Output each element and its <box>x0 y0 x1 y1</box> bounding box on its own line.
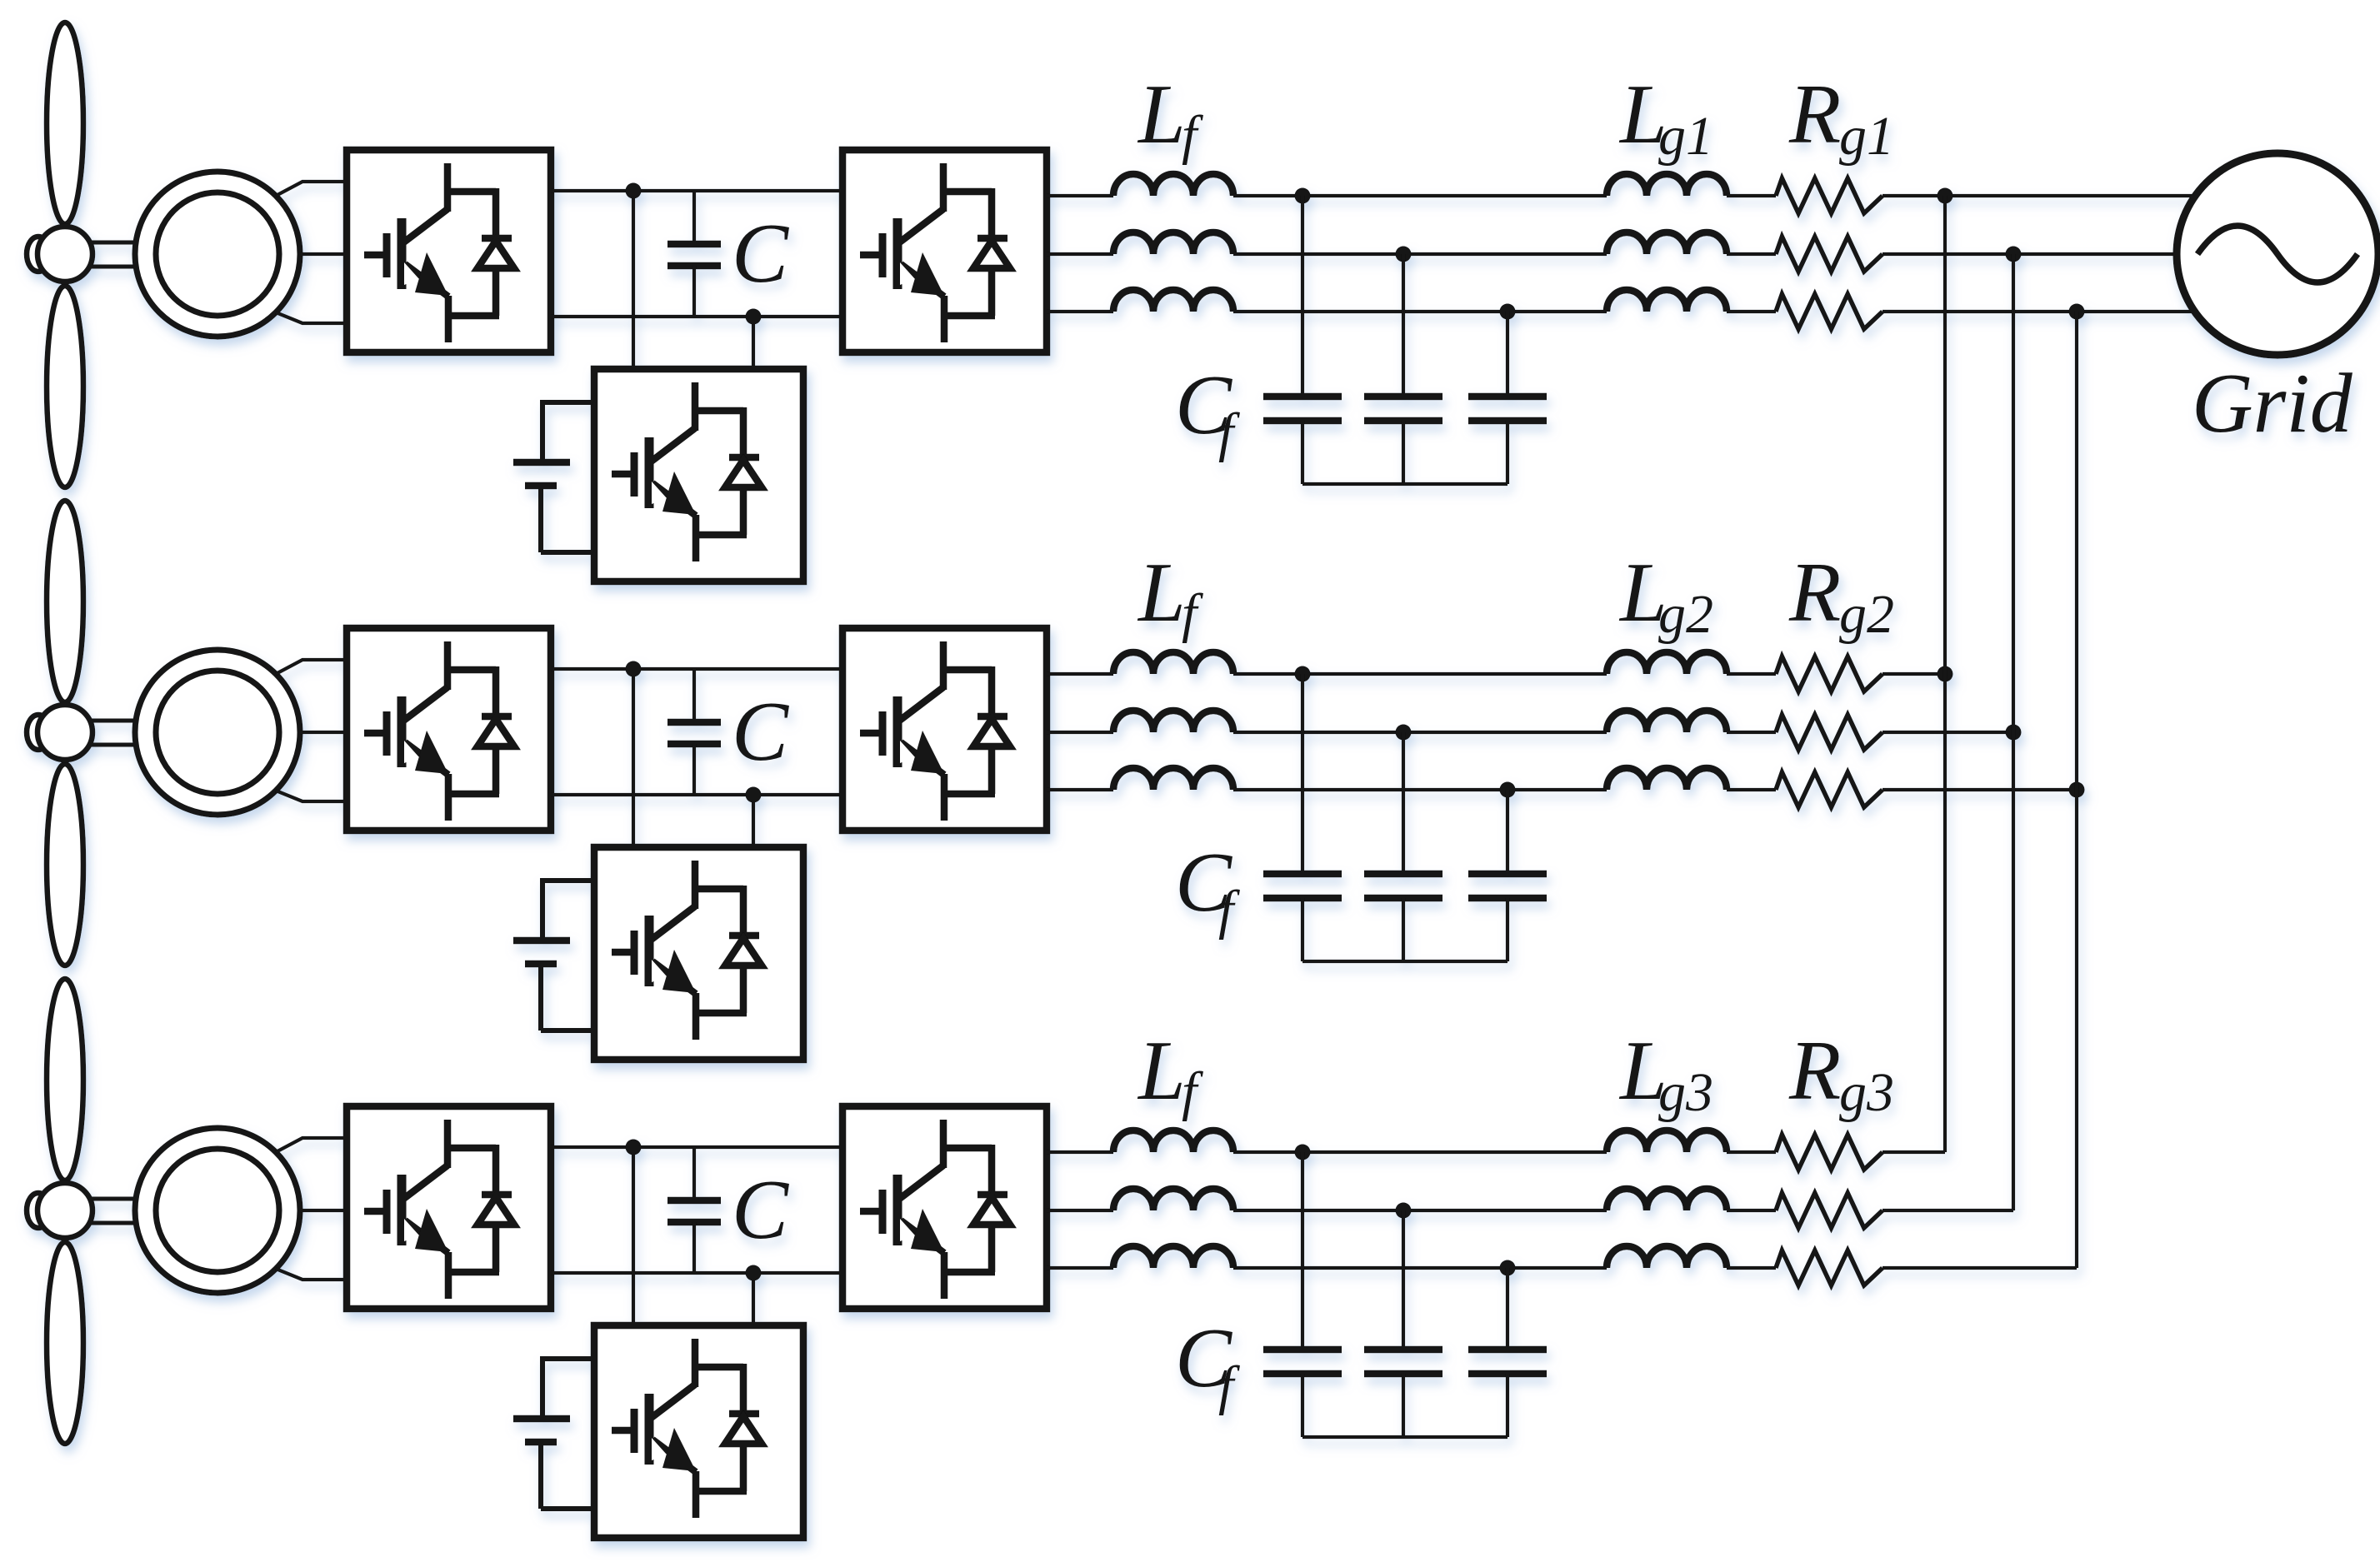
IGBT gate bar <box>631 452 638 497</box>
IGBT gate bar <box>383 1190 391 1234</box>
chopper converter U2c (braking) <box>594 847 803 1060</box>
wire: diode anode to emitter <box>492 746 500 794</box>
inductor Lf row 2 phase b <box>1113 711 1233 732</box>
diode body <box>973 241 1010 268</box>
diode body <box>477 719 514 746</box>
wire: Cf star point bus row 3 <box>1302 1435 1507 1439</box>
IGBT collector lead <box>692 382 699 431</box>
label Lf row 1 <box>1137 67 1203 166</box>
wire: G1 phase a to converter <box>276 182 347 196</box>
capacitor Cf row 2 phase b <box>1364 874 1442 961</box>
wire: G1 phase b to converter <box>300 252 347 256</box>
node: bus C row 2 <box>2069 782 2085 798</box>
wire: Lf to Lg1 phase a <box>1233 194 1607 197</box>
diode cathode bar <box>977 713 1007 721</box>
wire: collector to diode cathode <box>444 188 496 196</box>
capacitor Cf row 1 phase c <box>1468 397 1547 484</box>
IGBT emitter diagonal with arrow <box>901 742 944 775</box>
label C row 1 <box>732 207 789 301</box>
wire: U2b phase b output <box>1047 731 1113 734</box>
wind turbine W1 lower blade <box>47 286 83 487</box>
node: bus A row 1 <box>1937 188 1953 204</box>
inductor Lg2 phase b <box>1607 711 1727 732</box>
shaft W2 to generator <box>90 721 142 745</box>
converter U1b (grid-side inverter) <box>842 150 1047 352</box>
wire: phase a to Cf row 2 <box>1301 674 1304 874</box>
IGBT collector diagonal <box>898 687 943 721</box>
wind turbine W3 upper blade <box>47 979 83 1180</box>
wind turbine W2 upper blade <box>47 501 83 702</box>
diode body <box>477 241 514 268</box>
node: Cf tap phase c row 2 <box>1500 782 1516 798</box>
node: bus B row 1 <box>2006 247 2022 262</box>
node: Cf tap phase c row 1 <box>1500 304 1516 320</box>
wire: collector bus B (phase b) <box>2012 254 2015 1210</box>
inductor Lf row 3 phase a <box>1113 1130 1233 1152</box>
wire: collector bus C (phase c) <box>2075 312 2078 1268</box>
wire: Rg3 phase a to bus A <box>1882 1150 1945 1154</box>
wire: diode anode to emitter <box>740 487 747 535</box>
wire: DC+ rail row 1 <box>551 189 842 192</box>
IGBT emitter lead <box>445 296 452 342</box>
IGBT emitter lead <box>445 774 452 821</box>
label Lf row 2 <box>1137 546 1203 644</box>
capacitor C row 1 <box>667 191 721 317</box>
wire: Lg1 to Rg1 phase c <box>1727 310 1776 313</box>
node: Cf tap phase b row 1 <box>1396 247 1412 262</box>
wire: diode anode to emitter <box>988 268 996 316</box>
node: bus B row 2 <box>2006 725 2022 741</box>
IGBT emitter lead <box>692 1471 700 1518</box>
converter U2b outline <box>842 628 1047 831</box>
IGBT emitter diagonal with arrow <box>652 961 696 994</box>
resistor Rg3 phase c <box>1776 1250 1882 1285</box>
IGBT gate lead <box>860 730 882 737</box>
wire: Lg2 to Rg2 phase b <box>1727 731 1776 734</box>
IGBT gate bar <box>383 233 391 277</box>
battery B3 negative plate <box>525 1439 557 1446</box>
wire: G3 phase a to converter <box>276 1138 347 1152</box>
wire: Lg2 to Rg2 phase a <box>1727 672 1776 676</box>
wire: Lf to Lg2 phase a <box>1233 672 1607 676</box>
label Lg1 <box>1618 67 1713 167</box>
wind turbine W2 nose cone <box>27 715 50 750</box>
wind turbine W1 upper blade <box>47 22 83 224</box>
IGBT collector lead <box>692 1339 699 1387</box>
diode cathode bar <box>729 454 759 462</box>
IGBT collector lead <box>692 861 699 909</box>
wire: battery bracket bottom row 1 <box>541 486 594 552</box>
chopper U3c outline <box>594 1325 803 1538</box>
generator G3 <box>135 1128 300 1293</box>
wire: phase a to Cf row 3 <box>1301 1152 1304 1350</box>
wind turbine W3 nose cone <box>27 1193 50 1228</box>
IGBT emitter diagonal with arrow <box>405 1220 448 1253</box>
diode cathode bar <box>729 1410 759 1418</box>
wire: DC- rail row 3 <box>551 1271 842 1275</box>
battery B3 positive plate <box>513 1415 570 1423</box>
converter U3b outline <box>842 1106 1047 1309</box>
node: Cf tap phase b row 3 <box>1396 1203 1412 1219</box>
IGBT gate bar <box>879 711 887 756</box>
wire: phase c to Cf row 3 <box>1506 1268 1509 1350</box>
IGBT emitter diagonal with arrow <box>901 1220 944 1253</box>
wire: U3b phase c output <box>1047 1266 1113 1270</box>
wire: G3 phase b to converter <box>300 1209 347 1212</box>
wire: chopper tap + row 1 <box>632 191 635 369</box>
wire: battery bracket top row 1 <box>542 400 594 462</box>
wire: Lf to Lg3 phase c <box>1233 1266 1607 1270</box>
converter U2a (machine-side rectifier) <box>347 628 551 831</box>
resistor Rg3 phase b <box>1776 1193 1882 1228</box>
node: DC+ / chopper junction row 2 <box>626 661 642 677</box>
wire: phase b to Cf row 2 <box>1402 732 1405 874</box>
resistor Rg2 phase a <box>1776 656 1882 691</box>
wire: diode anode to emitter <box>988 746 996 794</box>
IGBT gate lead <box>364 252 387 259</box>
wire: G3 phase c to converter <box>276 1269 347 1280</box>
svg-text:g1: g1 <box>1839 106 1894 167</box>
IGBT gate bar <box>631 1409 638 1453</box>
label Lg2 <box>1618 546 1713 645</box>
resistor Rg1 phase b <box>1776 237 1882 272</box>
svg-text:R: R <box>1788 546 1841 640</box>
IGBT channel bar <box>893 1175 902 1245</box>
label Cf row 1 <box>1175 358 1240 463</box>
wire: diode anode to emitter <box>740 966 747 1013</box>
wire: DC- rail row 2 <box>551 793 842 796</box>
wire: U2b phase a output <box>1047 672 1113 676</box>
wind turbine W3 hub <box>37 1183 92 1238</box>
inductor Lg1 phase b <box>1607 232 1727 254</box>
IGBT channel bar <box>397 218 407 289</box>
IGBT collector diagonal <box>650 906 695 941</box>
IGBT gate bar <box>879 233 887 277</box>
IGBT emitter diagonal with arrow <box>652 1440 696 1472</box>
diode cathode bar <box>482 713 512 721</box>
inductor Lf row 3 phase c <box>1113 1246 1233 1268</box>
converter U3a outline <box>347 1106 551 1309</box>
IGBT channel bar <box>645 437 654 508</box>
wire: U1b phase b output <box>1047 252 1113 256</box>
IGBT collector lead <box>940 1120 947 1168</box>
IGBT channel bar <box>645 916 654 986</box>
IGBT collector diagonal <box>898 1165 943 1200</box>
IGBT emitter lead <box>692 515 700 561</box>
wire: collector to diode cathode <box>940 188 992 196</box>
wire: diode anode to emitter <box>492 1225 500 1272</box>
IGBT gate lead <box>860 252 882 259</box>
IGBT collector lead <box>444 163 452 212</box>
label Rg1 <box>1788 67 1894 167</box>
svg-text:C: C <box>732 207 789 301</box>
chopper converter U3c (braking) <box>594 1325 803 1538</box>
svg-text:L: L <box>1137 1024 1186 1118</box>
node: Cf tap phase a row 2 <box>1295 666 1311 682</box>
label Rg2 <box>1788 546 1894 645</box>
IGBT collector diagonal <box>402 209 447 243</box>
wind turbine W1 nose cone <box>27 237 50 272</box>
inductor Lg3 phase b <box>1607 1189 1727 1210</box>
svg-text:g2: g2 <box>1839 584 1894 645</box>
wire: Lf to Lg3 phase a <box>1233 1150 1607 1154</box>
IGBT gate bar <box>383 711 391 756</box>
wire: Rg3 phase c to bus C <box>1882 1266 2077 1270</box>
shaft W3 to generator <box>90 1199 142 1223</box>
label Cf row 2 <box>1175 836 1240 941</box>
shaft W1 to generator <box>90 242 142 267</box>
generator G1 <box>135 172 300 337</box>
converter U3b (grid-side inverter) <box>842 1106 1047 1309</box>
diode cathode bar <box>729 932 759 940</box>
inductor Lf row 1 phase c <box>1113 290 1233 312</box>
wire: G2 phase a to converter <box>276 660 347 674</box>
converter U1a (machine-side rectifier) <box>347 150 551 352</box>
IGBT collector diagonal <box>402 687 447 721</box>
inductor Lf row 2 phase a <box>1113 652 1233 674</box>
diode body <box>973 1197 1010 1225</box>
node: bus A row 2 <box>1937 666 1953 682</box>
IGBT emitter diagonal with arrow <box>405 742 448 775</box>
svg-text:R: R <box>1788 67 1841 162</box>
resistor Rg2 phase b <box>1776 715 1882 750</box>
wind turbine W3 lower blade <box>47 1242 83 1444</box>
wire: Cf star point bus row 2 <box>1302 960 1507 963</box>
wire: chopper tap - row 3 <box>752 1273 755 1325</box>
node: DC+ / chopper junction row 3 <box>626 1140 642 1155</box>
inductor Lg1 phase a <box>1607 174 1727 196</box>
inductor Lg2 phase c <box>1607 768 1727 790</box>
wire: Lf to Lg2 phase b <box>1233 731 1607 734</box>
IGBT gate lead <box>860 1208 882 1215</box>
node: Cf tap phase b row 2 <box>1396 725 1412 741</box>
chopper U2c outline <box>594 847 803 1060</box>
IGBT gate lead <box>364 1208 387 1215</box>
wire: Lf to Lg2 phase c <box>1233 788 1607 791</box>
node: Cf tap phase a row 3 <box>1295 1145 1311 1160</box>
svg-text:L: L <box>1137 67 1186 162</box>
svg-text:Grid: Grid <box>2192 357 2353 451</box>
converter U2a outline <box>347 628 551 831</box>
battery B2 positive plate <box>513 937 570 945</box>
IGBT channel bar <box>893 696 902 767</box>
grid source symbol <box>2177 153 2378 355</box>
wire: U1b phase c output <box>1047 310 1113 313</box>
diode cathode bar <box>482 235 512 242</box>
inductor Lg2 phase a <box>1607 652 1727 674</box>
wire: collector to diode cathode <box>692 1364 743 1371</box>
wire: battery bracket bottom row 2 <box>541 964 594 1031</box>
wire: phase a to Cf row 1 <box>1301 196 1304 397</box>
IGBT emitter diagonal with arrow <box>901 264 944 297</box>
wind turbine W2 lower blade <box>47 764 83 966</box>
node: DC- / chopper junction row 1 <box>746 309 762 325</box>
wire: DC- rail row 1 <box>551 315 842 318</box>
wire: Rg1 phase a to grid <box>1882 194 2195 197</box>
resistor Rg1 phase a <box>1776 178 1882 213</box>
diode cathode bar <box>482 1191 512 1199</box>
wire: Cf star point bus row 1 <box>1302 482 1507 486</box>
wind turbine W1 hub <box>37 227 92 282</box>
svg-text:g1: g1 <box>1658 106 1713 167</box>
node: bus C row 1 <box>2069 304 2085 320</box>
svg-text:g3: g3 <box>1658 1062 1713 1123</box>
wire: Rg2 phase c to bus C <box>1882 788 2077 791</box>
battery B2 negative plate <box>525 961 557 968</box>
label Lg3 <box>1618 1024 1713 1123</box>
IGBT channel bar <box>397 696 407 767</box>
svg-text:g3: g3 <box>1839 1062 1894 1123</box>
capacitor Cf row 2 phase c <box>1468 874 1547 961</box>
converter U3a (machine-side rectifier) <box>347 1106 551 1309</box>
capacitor Cf row 1 phase b <box>1364 397 1442 484</box>
wire: Lf to Lg1 phase b <box>1233 252 1607 256</box>
IGBT collector diagonal <box>898 209 943 243</box>
converter U2b (grid-side inverter) <box>842 628 1047 831</box>
wire: battery bracket top row 3 <box>542 1356 594 1419</box>
inductor Lg3 phase a <box>1607 1130 1727 1152</box>
wire: U1b phase a output <box>1047 194 1113 197</box>
wire: phase b to Cf row 1 <box>1402 254 1405 397</box>
wire: Lg3 to Rg3 phase a <box>1727 1150 1776 1154</box>
svg-text:C: C <box>732 685 789 779</box>
inductor Lf row 1 phase b <box>1113 232 1233 254</box>
wire: Lg3 to Rg3 phase c <box>1727 1266 1776 1270</box>
IGBT channel bar <box>645 1394 654 1465</box>
wire: collector to diode cathode <box>940 1145 992 1152</box>
label Grid <box>2192 357 2353 451</box>
wire: U3b phase a output <box>1047 1150 1113 1154</box>
wire: collector to diode cathode <box>444 1145 496 1152</box>
wire: diode anode to emitter <box>988 1225 996 1272</box>
node: Cf tap phase a row 1 <box>1295 188 1311 204</box>
IGBT gate bar <box>631 931 638 975</box>
svg-text:R: R <box>1788 1024 1841 1118</box>
wire: collector to diode cathode <box>940 666 992 674</box>
capacitor Cf row 3 phase b <box>1364 1350 1442 1437</box>
battery B1 negative plate <box>525 482 557 490</box>
capacitor Cf row 3 phase a <box>1263 1350 1342 1437</box>
IGBT channel bar <box>397 1175 407 1245</box>
capacitor Cf row 3 phase c <box>1468 1350 1547 1437</box>
chopper U1c outline <box>594 369 803 581</box>
wire: Rg2 phase a to bus A <box>1882 672 1945 676</box>
wire: Lg1 to Rg1 phase b <box>1727 252 1776 256</box>
converter U1b outline <box>842 150 1047 352</box>
wire: U2b phase c output <box>1047 788 1113 791</box>
wire: DC+ rail row 3 <box>551 1145 842 1149</box>
node: DC- / chopper junction row 3 <box>746 1265 762 1281</box>
wire: phase c to Cf row 1 <box>1506 312 1509 397</box>
wire: Lf to Lg3 phase b <box>1233 1209 1607 1212</box>
capacitor Cf row 2 phase a <box>1263 874 1342 961</box>
node: DC- / chopper junction row 2 <box>746 787 762 803</box>
IGBT gate bar <box>879 1190 887 1234</box>
diode body <box>725 1416 762 1444</box>
label C row 3 <box>732 1163 789 1257</box>
wire: phase c to Cf row 2 <box>1506 790 1509 874</box>
svg-text:g2: g2 <box>1658 584 1713 645</box>
IGBT emitter lead <box>941 774 948 821</box>
diode cathode bar <box>977 1191 1007 1199</box>
wire: chopper tap - row 2 <box>752 795 755 847</box>
wire: battery bracket top row 2 <box>542 878 594 941</box>
IGBT collector diagonal <box>650 1385 695 1419</box>
battery B1 positive plate <box>513 459 570 467</box>
wire: G1 phase c to converter <box>276 312 347 323</box>
diode cathode bar <box>977 235 1007 242</box>
wire: Lg2 to Rg2 phase c <box>1727 788 1776 791</box>
IGBT channel bar <box>893 218 902 289</box>
wire: G2 phase b to converter <box>300 731 347 734</box>
wire: collector bus A (phase a) <box>1943 196 1947 1152</box>
wire: collector to diode cathode <box>444 666 496 674</box>
label C row 2 <box>732 685 789 779</box>
wire: chopper tap - row 1 <box>752 317 755 369</box>
wire: Lg3 to Rg3 phase b <box>1727 1209 1776 1212</box>
wire: Rg3 phase b to bus B <box>1882 1209 2013 1212</box>
IGBT emitter lead <box>941 1252 948 1299</box>
chopper converter U1c (braking) <box>594 369 803 581</box>
IGBT collector diagonal <box>402 1165 447 1200</box>
IGBT emitter lead <box>692 993 700 1040</box>
diode body <box>725 938 762 966</box>
resistor Rg3 phase a <box>1776 1135 1882 1170</box>
node: Cf tap phase c row 3 <box>1500 1260 1516 1276</box>
wire: chopper tap + row 2 <box>632 669 635 847</box>
svg-text:C: C <box>732 1163 789 1257</box>
resistor Rg2 phase c <box>1776 772 1882 807</box>
label Lf row 3 <box>1137 1024 1203 1122</box>
IGBT collector lead <box>940 163 947 212</box>
wire: collector to diode cathode <box>692 407 743 415</box>
wire: Lf to Lg1 phase c <box>1233 310 1607 313</box>
node: DC+ / chopper junction row 1 <box>626 183 642 199</box>
capacitor Cf row 1 phase a <box>1263 397 1342 484</box>
wire: Lg1 to Rg1 phase a <box>1727 194 1776 197</box>
inductor Lf row 1 phase a <box>1113 174 1233 196</box>
IGBT collector lead <box>444 641 452 690</box>
wire: Rg1 phase c to grid <box>1882 310 2196 313</box>
IGBT gate lead <box>612 1427 634 1435</box>
diode body <box>973 719 1010 746</box>
inductor Lf row 2 phase c <box>1113 768 1233 790</box>
diode body <box>725 460 762 487</box>
generator G2 <box>135 650 300 815</box>
wire: phase b to Cf row 3 <box>1402 1210 1405 1350</box>
wire: diode anode to emitter <box>492 268 500 316</box>
IGBT emitter diagonal with arrow <box>652 483 696 516</box>
wire: Rg2 phase b to bus B <box>1882 731 2013 734</box>
converter U1a outline <box>347 150 551 352</box>
wind turbine W2 hub <box>37 705 92 760</box>
resistor Rg1 phase c <box>1776 294 1882 329</box>
wire: collector to diode cathode <box>692 886 743 893</box>
wire: Rg1 phase b to grid <box>1882 252 2177 256</box>
IGBT emitter lead <box>941 296 948 342</box>
capacitor C row 3 <box>667 1147 721 1273</box>
IGBT collector diagonal <box>650 428 695 462</box>
IGBT emitter lead <box>445 1252 452 1299</box>
wire: battery bracket bottom row 3 <box>541 1442 594 1509</box>
IGBT collector lead <box>444 1120 452 1168</box>
wire: DC+ rail row 2 <box>551 667 842 671</box>
svg-text:L: L <box>1137 546 1186 640</box>
wire: diode anode to emitter <box>740 1444 747 1491</box>
inductor Lg1 phase c <box>1607 290 1727 312</box>
wire: chopper tap + row 3 <box>632 1147 635 1325</box>
wire: U3b phase b output <box>1047 1209 1113 1212</box>
